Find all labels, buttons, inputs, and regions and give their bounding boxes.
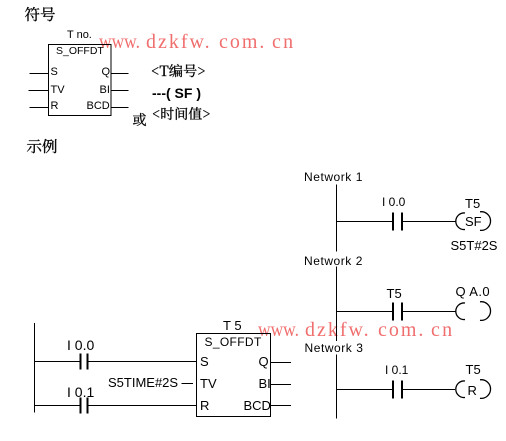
pin wire TV (left)	[29, 90, 49, 92]
box S_OFFDT symbol	[49, 45, 112, 116]
label T 5 (example box)	[223, 319, 242, 332]
power rail network 3	[336, 355, 338, 419]
label <时间值>	[151, 105, 212, 122]
label S5T#2S	[451, 239, 498, 252]
contact I0.0 (example)	[81, 354, 88, 370]
section label 示例	[25, 137, 59, 155]
wire network1 left	[336, 221, 393, 223]
wire out BI	[271, 384, 292, 386]
pin label BI	[100, 85, 110, 96]
wire row R left	[34, 405, 80, 407]
wire network2 left	[336, 311, 393, 313]
pin label R	[51, 101, 59, 112]
pin wire R (left)	[30, 107, 49, 109]
power rail network 1	[336, 185, 338, 252]
pin label TV	[51, 85, 65, 96]
wire network3 right	[403, 389, 456, 391]
label I0.1 network3	[385, 364, 408, 376]
wire row S right	[88, 361, 197, 363]
wire TV dash	[182, 383, 194, 385]
label I0.0 network1	[382, 196, 405, 208]
label ---( SF )	[152, 86, 201, 100]
label R in coil	[468, 384, 477, 397]
wire network1 right	[403, 221, 457, 223]
pin label BCD (example)	[244, 399, 271, 412]
label S_OFFDT (symbol box)	[56, 46, 104, 57]
pin wire S (left)	[30, 73, 49, 75]
pin wire Q (right)	[111, 73, 129, 75]
pin label Q (example)	[259, 355, 269, 368]
wire row R right	[88, 405, 197, 407]
pin wire BI (right)	[111, 90, 129, 92]
pin label Q	[102, 67, 111, 78]
pin wire BCD (right)	[111, 107, 129, 109]
wire network2 right	[403, 311, 456, 313]
left power rail (example ladder)	[34, 323, 36, 413]
label Network 3	[305, 342, 364, 354]
contact T5 network2	[393, 303, 402, 321]
wire out Q	[271, 362, 292, 364]
pin label S	[51, 67, 58, 78]
label T5 contact network2	[387, 287, 402, 300]
label S_OFFDT (example box)	[205, 336, 262, 348]
watermark www.dzkfw.com.cn (top)	[99, 32, 140, 52]
pin label BCD	[87, 101, 110, 112]
pin label R (example)	[200, 399, 209, 412]
section label 符号	[23, 5, 57, 23]
label T no.	[67, 30, 92, 41]
wire network3 left	[336, 389, 393, 391]
coil (SF) T5	[456, 212, 491, 231]
power rail network 2	[336, 267, 338, 342]
pin label BI (example)	[259, 377, 271, 390]
label Network 1	[304, 171, 363, 183]
label 或	[131, 111, 148, 128]
wire row S left	[34, 361, 80, 363]
watermark www.dzkfw.com.cn (bottom)	[258, 320, 299, 340]
pin label TV (example)	[200, 377, 217, 390]
label I0.1 (example)	[67, 385, 94, 399]
label <T编号>	[150, 62, 207, 79]
coil (R) T5	[456, 380, 491, 399]
coil ( ) Q A.0	[456, 302, 491, 321]
label T5 network1 coil	[465, 197, 480, 210]
label T5 network3 coil	[466, 363, 481, 376]
wire out BCD	[271, 405, 292, 407]
contact I0.1 (example)	[81, 398, 88, 414]
label Q A.0	[456, 285, 491, 298]
timer block T5 S_OFFDT (example)	[197, 334, 271, 417]
contact I0.1 network3	[393, 381, 402, 399]
label SF in coil	[465, 215, 482, 228]
label I0.0 (example)	[67, 338, 94, 352]
contact I0.0 network1	[393, 213, 402, 231]
pin label S (example)	[200, 355, 209, 368]
label Network 2	[304, 255, 363, 267]
label S5TIME#2S	[108, 376, 178, 389]
